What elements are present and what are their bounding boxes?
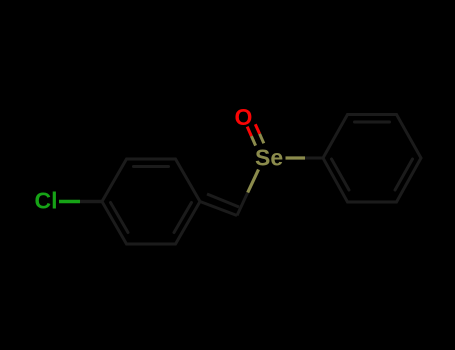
svg-text:Cl: Cl [35,188,58,214]
svg-text:O: O [235,104,253,130]
bond Se to right ring : carbon half [305,157,323,160]
vinyl C=C double bond [200,194,239,216]
Se=O double bond line1 olive half [251,136,255,146]
right benzene ring outline [323,115,421,203]
bond Cl to ring : carbon half [80,200,102,203]
bond Se to right ring : olive half [286,156,306,159]
Se=O double bond line1 red half [247,127,251,137]
Se=O double bond line2 olive half [260,134,264,144]
left ring inner double bond: right-bottom edge [174,203,192,233]
Se=O double bond line2 red half [255,124,259,134]
bond CH-Se : olive half [248,170,259,193]
right ring inner double bond: left-bottom edge [332,159,350,190]
right ring inner double bond: top edge [355,121,390,124]
svg-text:Se: Se [255,144,283,170]
bond Cl to ring : green half [59,200,80,203]
right ring inner double bond: right-bottom edge [395,159,413,190]
left ring inner double bond: top edge [134,165,169,168]
bond CH-Se : carbon half [237,193,248,216]
left ring inner double bond: left-bottom edge [111,203,129,233]
left benzene ring outline [102,159,200,244]
